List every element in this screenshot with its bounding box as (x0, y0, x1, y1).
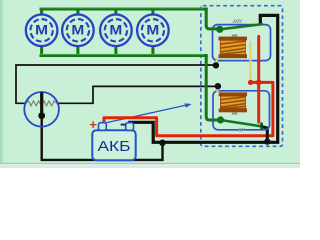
svg-text:АКБ: АКБ (98, 139, 131, 155)
svg-text:М: М (146, 23, 159, 38)
svg-text:М: М (35, 23, 48, 38)
svg-text:+: + (89, 117, 97, 132)
svg-text:М: М (109, 23, 122, 38)
svg-text:М: М (71, 23, 84, 38)
